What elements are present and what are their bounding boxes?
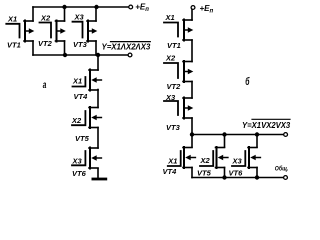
label a (circuit a) <box>43 78 47 90</box>
label X2 input VT2 right <box>165 54 176 63</box>
label X3 input VT3 <box>74 13 85 22</box>
label X1 input VT1 <box>7 14 17 23</box>
svg-text:X3: X3 <box>72 156 83 165</box>
svg-text:X2: X2 <box>71 116 82 125</box>
wire VT2 source to output bus <box>64 41 66 55</box>
svg-text:X2: X2 <box>40 13 51 22</box>
svg-text:VT4: VT4 <box>163 167 178 176</box>
wire gate lead X2 VT2 <box>40 23 52 38</box>
wire gate lead X2 VT2 right <box>164 63 178 78</box>
label VT3 right <box>166 123 181 132</box>
wire VT6 source to ground <box>97 169 99 178</box>
svg-text:X3: X3 <box>165 93 176 102</box>
wire gate lead X3 VT6 <box>72 151 85 165</box>
wire VT1 source to VT2 drain right <box>191 40 193 62</box>
svg-text:VT6: VT6 <box>229 169 244 178</box>
wire VT3 source to output bus <box>95 41 97 55</box>
label +En right <box>200 4 214 15</box>
wire VT6 source to common bus <box>256 168 258 178</box>
junction VT5 drain on Y bus <box>222 132 226 136</box>
label X1 input VT4 <box>72 77 82 86</box>
ground bar left circuit <box>93 178 106 181</box>
node Y junction right <box>190 132 194 136</box>
wire VT1 source to output bus <box>32 41 34 55</box>
svg-text:VT1: VT1 <box>7 40 21 49</box>
label VT4 <box>74 92 89 101</box>
wire gate lead X3 VT3 <box>73 22 83 38</box>
wire Y bus right circuit <box>192 134 284 136</box>
node Y label left: Y = inv(X1 and X2 and X3) <box>102 42 151 52</box>
terminal +En left <box>129 5 133 9</box>
transistor VT5 right (n-MOS) <box>216 147 228 168</box>
label X3 input VT3 right <box>165 93 176 102</box>
wire Y bus down to VT6 drain <box>256 135 258 148</box>
svg-text:VT2: VT2 <box>167 82 182 91</box>
junction VT2 rail <box>62 5 66 9</box>
svg-text:Y=X1VX2VX3: Y=X1VX2VX3 <box>242 121 291 130</box>
junction VT2 source on output bus <box>63 53 67 57</box>
wire VT4 source to common bus right <box>191 168 193 178</box>
wire VT3 source down to Y node right <box>191 118 193 135</box>
svg-text:X2: X2 <box>165 54 176 63</box>
svg-text:Общ.: Общ. <box>275 165 289 173</box>
terminal +En right <box>191 6 195 10</box>
label VT6 right <box>229 169 244 178</box>
label X2 input VT5 <box>71 116 82 125</box>
transistor VT1 (p-MOS) <box>24 21 34 42</box>
wire VT2 drain to rail <box>64 7 66 21</box>
svg-text:X2: X2 <box>200 156 211 165</box>
terminal Obsch (common) <box>284 176 288 180</box>
wire Y down to VT4 drain right <box>191 135 193 148</box>
transistor VT3 right (p-MOS) <box>183 98 193 119</box>
label X2 input VT5 right <box>200 156 211 165</box>
wire VT5 source to VT6 drain <box>97 128 99 149</box>
transistor VT3 (p-MOS) <box>87 21 97 42</box>
label VT5 right <box>197 169 212 178</box>
label VT6 <box>72 169 87 178</box>
label +En left <box>135 3 149 14</box>
terminal Y left <box>128 53 132 57</box>
label VT3 <box>73 40 88 49</box>
label X1 input VT1 right <box>165 13 175 22</box>
wire bus down to VT4 drain <box>97 55 99 70</box>
wire VT1 drain to rail <box>32 7 34 21</box>
transistor VT6 (n-MOS) <box>89 148 101 169</box>
svg-text:X3: X3 <box>74 13 85 22</box>
svg-text:X1: X1 <box>167 156 177 165</box>
label VT2 <box>38 39 53 48</box>
transistor VT1 right (p-MOS) <box>183 20 193 41</box>
transistor VT2 (p-MOS) <box>56 21 66 42</box>
label X1 input VT4 right <box>167 156 177 165</box>
transistor VT4 right (n-MOS) <box>183 147 195 168</box>
wire output bus Y left circuit <box>33 54 128 56</box>
junction VT6 drain on Y bus <box>255 132 259 136</box>
svg-text:VT4: VT4 <box>74 92 89 101</box>
wire common bus (Obsch) right circuit <box>192 177 284 179</box>
junction output bus to NMOS chain <box>96 53 100 57</box>
wire gate lead X1 VT1 <box>6 24 19 38</box>
wire gate lead X3 VT6 right <box>232 151 245 166</box>
label VT5 <box>75 134 90 143</box>
wire top rail +En left circuit <box>33 6 129 8</box>
wire gate lead X2 VT5 right <box>200 151 213 166</box>
wire gate lead X3 VT3 right <box>164 101 178 115</box>
transistor VT5 (n-MOS) <box>89 107 101 128</box>
label X3 input VT6 right <box>232 157 243 166</box>
transistor VT2 right (p-MOS) <box>183 61 193 82</box>
wire VT3 drain to rail <box>95 7 97 21</box>
label b (circuit b) <box>245 75 249 87</box>
svg-text:+Eп: +Eп <box>135 3 149 14</box>
wire +En down to VT1 right <box>191 10 193 21</box>
label VT2 right <box>167 82 182 91</box>
svg-text:X1: X1 <box>165 13 175 22</box>
terminal Y right <box>284 133 288 137</box>
wire VT2 source to VT3 drain right <box>191 82 193 99</box>
junction VT3 rail <box>94 5 98 9</box>
wire gate lead X2 VT5 <box>72 111 85 125</box>
junction VT5 source on common bus <box>222 175 226 179</box>
transistor VT4 (n-MOS) <box>89 70 101 91</box>
svg-text:VT6: VT6 <box>72 169 87 178</box>
wire VT4 source to VT5 drain <box>97 90 99 108</box>
svg-text:+Eп: +Eп <box>200 4 214 15</box>
wire gate lead X1 VT1 right <box>164 23 178 37</box>
svg-text:VT1: VT1 <box>167 41 181 50</box>
svg-text:б: б <box>245 75 249 87</box>
svg-text:VT2: VT2 <box>38 39 53 48</box>
wire gate lead X1 VT4 <box>73 77 86 87</box>
junction VT6 source on common bus <box>255 175 259 179</box>
svg-text:Y=X1ΛX2ΛX3: Y=X1ΛX2ΛX3 <box>102 42 151 51</box>
label VT1 <box>7 40 21 49</box>
label VT4 right <box>163 167 178 176</box>
label X3 input VT6 <box>72 156 83 165</box>
node Y label right: Y = inv(X1 or X2 or X3) <box>242 119 291 130</box>
svg-text:X1: X1 <box>7 14 17 23</box>
label Obsch (common) <box>275 165 289 173</box>
svg-text:а: а <box>43 78 47 90</box>
transistor VT6 right (n-MOS) <box>248 147 260 168</box>
wire Y bus down to VT5 drain <box>224 135 226 148</box>
wire gate lead X1 VT4 right <box>168 151 181 166</box>
label VT1 right <box>167 41 181 50</box>
svg-text:VT5: VT5 <box>197 169 212 178</box>
wire VT5 source to common bus <box>224 168 226 178</box>
svg-text:VT3: VT3 <box>166 123 181 132</box>
svg-text:VT5: VT5 <box>75 134 90 143</box>
svg-text:X3: X3 <box>232 157 243 166</box>
svg-text:VT3: VT3 <box>73 40 88 49</box>
svg-text:X1: X1 <box>72 77 82 86</box>
label X2 input VT2 <box>40 13 51 22</box>
